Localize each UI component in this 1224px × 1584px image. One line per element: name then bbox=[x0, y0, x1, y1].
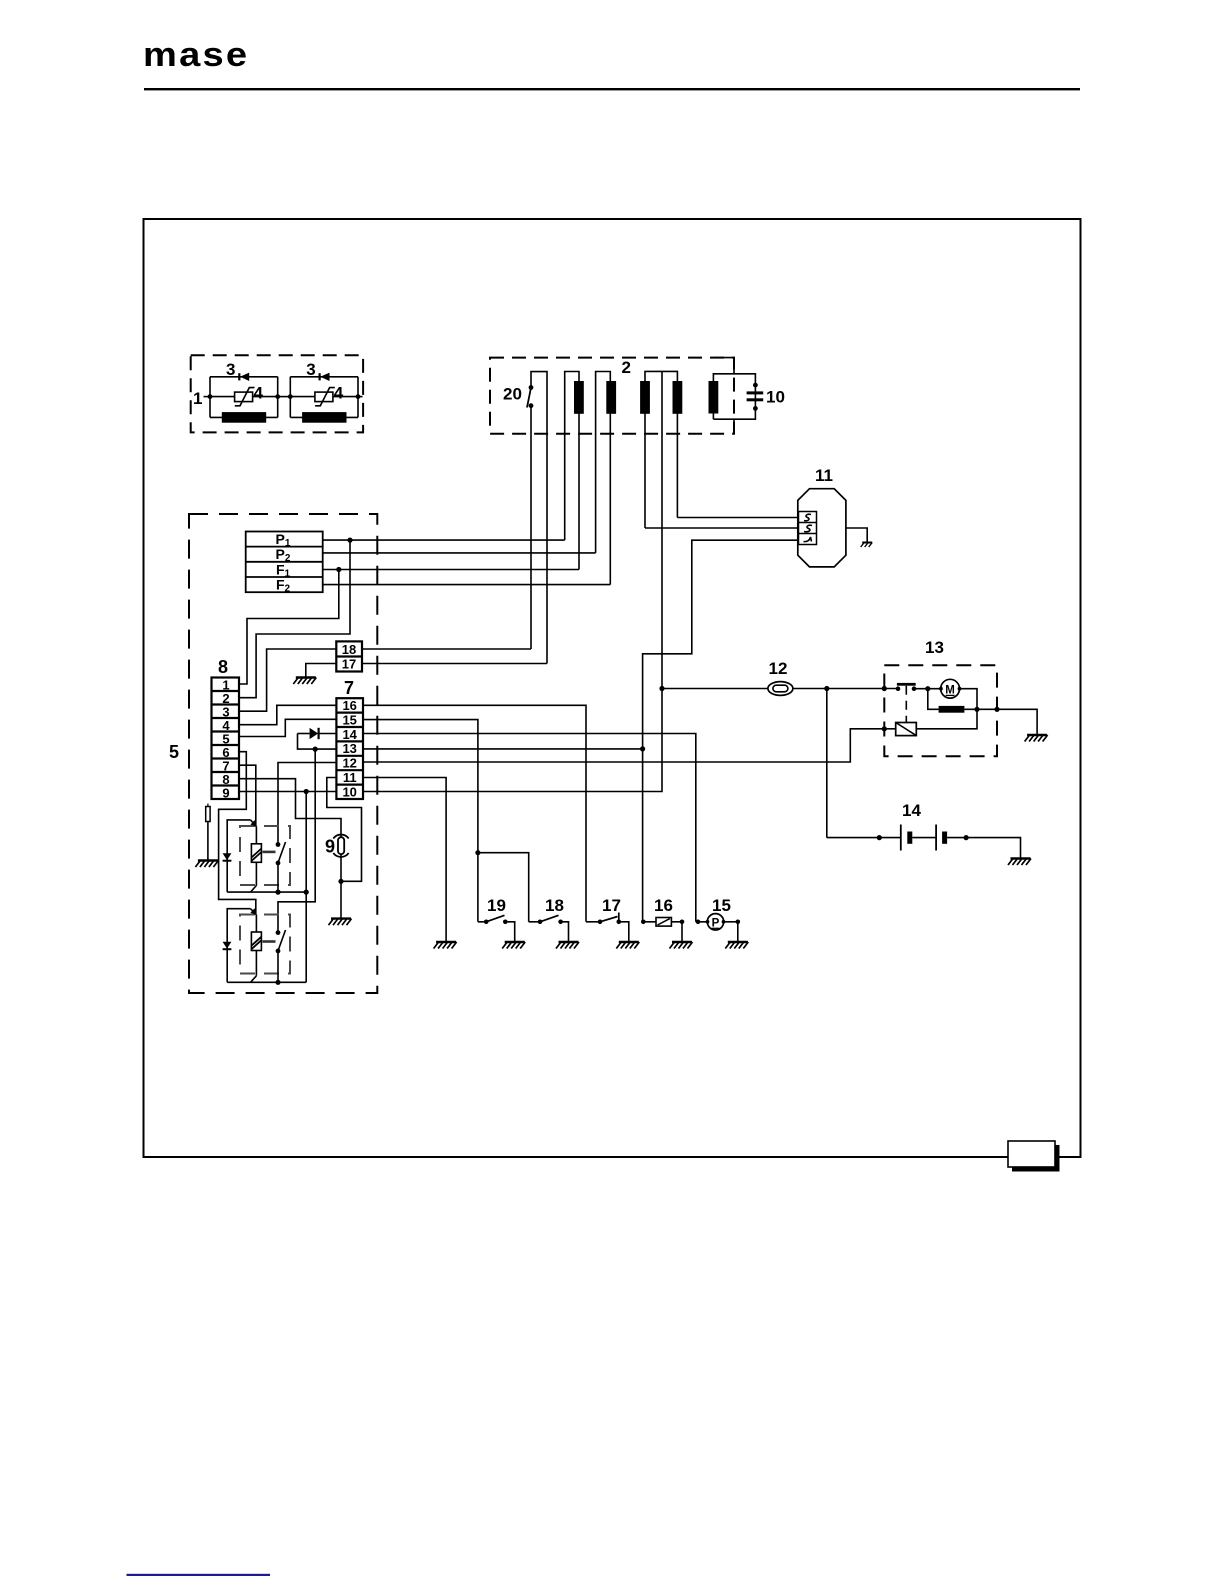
ground under lamp bbox=[329, 919, 352, 926]
svg-text:20: 20 bbox=[503, 385, 522, 404]
svg-text:P: P bbox=[712, 917, 720, 929]
wire P1 tap down to pin 2 bbox=[239, 540, 350, 698]
footer blue rule bbox=[127, 1574, 271, 1576]
svg-text:2: 2 bbox=[622, 358, 631, 377]
relay 2 bottom diagonal bbox=[251, 976, 257, 983]
ground pin11 bbox=[434, 942, 457, 949]
svg-text:4: 4 bbox=[254, 384, 264, 403]
svg-text:10: 10 bbox=[342, 784, 356, 799]
small ground at regulator bbox=[861, 543, 873, 548]
svg-text:9: 9 bbox=[222, 786, 229, 801]
ground sensor 15 bbox=[725, 942, 748, 949]
wire row 5 to pin 15 bbox=[239, 719, 336, 736]
svg-text:18: 18 bbox=[545, 896, 564, 915]
winding loop B bbox=[565, 372, 579, 570]
wire F1 tap down to pin 1 bbox=[239, 570, 339, 685]
wire row 4 to pin 16 bbox=[239, 705, 336, 724]
node pin13/rail bbox=[640, 746, 645, 751]
svg-text:13: 13 bbox=[925, 638, 944, 657]
connector 7 pin numbers bbox=[342, 698, 357, 799]
relay 2 coil bbox=[255, 915, 257, 976]
ground starter bbox=[1025, 735, 1048, 742]
relay 2 coil top arrow bbox=[251, 909, 257, 915]
wire pin12 left to relay 1 switch bbox=[278, 763, 336, 845]
terminal squiggle 2 bbox=[804, 525, 812, 531]
svg-text:3: 3 bbox=[306, 360, 315, 379]
svg-text:4: 4 bbox=[334, 384, 344, 403]
ground switch 17 bbox=[616, 942, 639, 949]
node on pin15 branch bbox=[475, 850, 480, 855]
svg-text:10: 10 bbox=[766, 388, 785, 407]
relay 1 coil bbox=[255, 827, 257, 886]
relay 2 free-wheel diode loop bbox=[227, 909, 250, 983]
wire lamp to ground node bbox=[340, 855, 342, 919]
relay 2 switch bbox=[278, 930, 286, 982]
relay 2 actuator link bbox=[263, 940, 276, 943]
header rule bbox=[144, 88, 1080, 90]
wire branch to pin 13 bbox=[298, 734, 337, 750]
relay 1 coil top arrow bbox=[251, 820, 257, 827]
wire P1 to winding B bbox=[323, 539, 565, 541]
winding loop C bbox=[596, 372, 611, 585]
wire probe to ground bbox=[207, 822, 209, 861]
svg-text:M: M bbox=[945, 684, 955, 696]
wire pin16 to switch 17 bbox=[363, 705, 586, 922]
relay 1 bottom nodes bbox=[275, 890, 280, 895]
fuse 12 body bbox=[768, 682, 793, 696]
svg-text:11: 11 bbox=[815, 466, 833, 485]
relay 1 bottom rail bbox=[227, 891, 306, 893]
svg-text:13: 13 bbox=[342, 741, 356, 756]
node on P1 wire bbox=[347, 538, 352, 543]
svg-text:19: 19 bbox=[487, 896, 506, 915]
switch 20 loop bbox=[531, 372, 547, 664]
svg-text:11: 11 bbox=[343, 770, 357, 785]
wire down to battery bbox=[826, 689, 828, 838]
wire pin10 to battery rail bbox=[363, 689, 662, 792]
winding bar D1 bbox=[640, 381, 650, 414]
diode 3 (unit 2) bbox=[319, 373, 321, 380]
wire row 6 feed to relay 2 coil (bypass) bbox=[219, 752, 256, 915]
svg-text:8: 8 bbox=[218, 657, 228, 677]
wire P2 to winding C bbox=[323, 552, 596, 554]
relay 2 outline bbox=[240, 915, 290, 974]
winding loop D bbox=[645, 371, 677, 688]
wire pin17 right to winding loop A bbox=[362, 663, 547, 665]
wire pin18 right to winding loop A bbox=[362, 648, 531, 650]
connector 7 body bbox=[336, 698, 363, 799]
motor M bbox=[941, 679, 960, 698]
wire contact to motor bbox=[914, 688, 941, 690]
relay 2 diode bbox=[223, 942, 232, 949]
field winding bar bbox=[939, 706, 965, 713]
ground sensor 16 bbox=[670, 942, 693, 949]
winding bar B bbox=[574, 381, 584, 414]
dashed box 2 bbox=[490, 358, 734, 434]
svg-text:15: 15 bbox=[342, 712, 356, 727]
winding bar C bbox=[606, 381, 616, 414]
node at box edge bbox=[882, 686, 887, 691]
feed wire with fuse bbox=[662, 688, 898, 690]
relay 1 free-wheel diode loop bbox=[227, 820, 250, 892]
wire: unit2 frame bbox=[290, 377, 358, 418]
svg-text:mase: mase bbox=[143, 35, 249, 74]
node on F1 wire bbox=[336, 567, 341, 572]
dashed box 13 bbox=[884, 665, 997, 756]
supply rail down from row9 node bbox=[305, 792, 307, 983]
node battery drop bbox=[824, 686, 829, 691]
node winding rail / fuse wire bbox=[659, 686, 664, 691]
diode to pin 14 bbox=[298, 733, 310, 735]
wire: stub to border bbox=[358, 396, 363, 398]
svg-text:12: 12 bbox=[769, 659, 788, 678]
connector 8 pin numbers bbox=[222, 678, 230, 801]
varistor 4 (unit 1) bbox=[235, 392, 253, 402]
terminal squiggle 3 bbox=[804, 537, 812, 542]
motor right leg bbox=[916, 689, 977, 729]
wire row 9 to pin 10 bbox=[239, 791, 336, 793]
thermal sensor 16 bbox=[643, 922, 682, 942]
resistor bar (unit 1) bbox=[222, 412, 266, 423]
node at box right edge bbox=[994, 707, 999, 712]
switch 17 bbox=[586, 922, 629, 942]
relay 2 bottom rail bbox=[227, 981, 306, 983]
wire pin13 to rail node bbox=[363, 748, 643, 750]
svg-text:18: 18 bbox=[342, 642, 356, 657]
svg-text:16: 16 bbox=[654, 896, 673, 915]
switch 19 bbox=[478, 922, 515, 942]
wire winding D1 to regulator mid terminal bbox=[645, 527, 799, 529]
wire pin13 node down to relay 2 switch bbox=[278, 749, 315, 933]
switch 20 blade bbox=[527, 388, 531, 408]
wire: node stub left, unit 1 bbox=[204, 396, 211, 398]
wire F2 to winding C bbox=[323, 584, 611, 586]
wire F1 to winding B bbox=[323, 569, 579, 571]
solenoid coil bbox=[896, 723, 917, 736]
node under lamp bbox=[338, 879, 343, 884]
capacitor 10 bbox=[747, 391, 764, 394]
diode 3 (unit 1) bbox=[238, 373, 240, 380]
node field/motor leg bbox=[974, 707, 979, 712]
connector 8 body bbox=[212, 678, 240, 800]
wire row 7 feed to relay 1 coil bbox=[239, 765, 256, 826]
dashed box 1 bbox=[191, 355, 363, 432]
battery plates bbox=[900, 825, 902, 851]
wire regulator right to ground bbox=[846, 528, 867, 543]
winding bar E bbox=[709, 381, 719, 414]
wire winding D2 to regulator top terminal bbox=[677, 517, 798, 519]
svg-text:1: 1 bbox=[193, 389, 202, 408]
node coil wire at box edge bbox=[882, 726, 887, 731]
svg-text:12: 12 bbox=[342, 756, 356, 771]
wire to starter ground bbox=[997, 709, 1037, 735]
wire pin12 to starter solenoid bbox=[363, 729, 896, 762]
relay 1 switch bbox=[278, 842, 286, 892]
svg-text:17: 17 bbox=[342, 657, 356, 672]
battery feed wire bbox=[827, 838, 1021, 859]
octagon body bbox=[798, 489, 846, 567]
node on row9 wire bbox=[304, 789, 309, 794]
resistor bar (unit 2) bbox=[302, 412, 346, 423]
relay 2 bottom node bbox=[275, 980, 280, 985]
solenoid contact plate bbox=[897, 683, 916, 686]
wire row 8 to lamp 9 bbox=[239, 779, 341, 837]
relay 1 outline bbox=[240, 826, 290, 885]
terminal table P1 P2 F1 F2 bbox=[246, 532, 323, 593]
pressure sensor 15 bbox=[696, 922, 738, 942]
dashed box 5 bbox=[189, 514, 377, 993]
wire regulator bottom terminal to rail bbox=[643, 540, 799, 922]
terminal block bbox=[799, 512, 817, 545]
ground under probe bbox=[195, 861, 218, 868]
winding bar D2 bbox=[673, 381, 683, 414]
svg-text:16: 16 bbox=[342, 698, 356, 713]
node on pin13 branch bbox=[313, 747, 318, 752]
relay 1 bottom diagonal bbox=[251, 886, 257, 893]
wire pin11 to ground bbox=[363, 778, 446, 943]
varistor 4 (unit 2) bbox=[315, 392, 333, 402]
svg-text:14: 14 bbox=[342, 727, 357, 742]
svg-text:3: 3 bbox=[226, 360, 235, 379]
wire: link between units bbox=[278, 396, 291, 398]
contact fixed dots bbox=[896, 686, 901, 691]
corner stamp box on bottom border bbox=[1008, 1141, 1060, 1172]
wire pin11 left loop to lamp node bbox=[327, 778, 362, 882]
ground switch 19 bbox=[502, 942, 525, 949]
svg-text:7: 7 bbox=[344, 678, 354, 698]
relay 1 diode bbox=[223, 853, 232, 860]
wire pin18 left to row 3 bbox=[239, 649, 336, 711]
terminal squiggle 1 bbox=[804, 514, 811, 520]
svg-text:14: 14 bbox=[902, 801, 921, 820]
page frame (diagram border) bbox=[144, 219, 1081, 1157]
battery wire nodes bbox=[877, 835, 882, 840]
node motor branch bbox=[925, 686, 930, 691]
field winding branch bbox=[928, 689, 997, 710]
sensor probe electrode bbox=[207, 804, 209, 807]
switch 18 bbox=[529, 922, 569, 942]
svg-text:5: 5 bbox=[169, 742, 179, 762]
relay 1 actuator link bbox=[263, 851, 276, 854]
wire pin14 to pressure sensor 15 bbox=[363, 734, 696, 922]
svg-text:15: 15 bbox=[712, 896, 731, 915]
wire pin15 to switches 19 and 18 bbox=[363, 720, 529, 922]
wire pin17 left to ground bbox=[306, 664, 337, 678]
wire: unit1 frame bbox=[210, 377, 278, 418]
ground battery bbox=[1008, 859, 1031, 866]
node dots unit 2 bbox=[288, 394, 293, 399]
svg-text:17: 17 bbox=[602, 896, 621, 915]
winding loop E (battery charge winding) bbox=[713, 358, 755, 434]
ground switch 18 bbox=[556, 942, 579, 949]
contact actuating stem (dashed) bbox=[905, 686, 907, 723]
ground under pin17 bbox=[293, 678, 316, 685]
node dots unit 1 bbox=[208, 394, 213, 399]
lamp body bbox=[333, 835, 348, 857]
